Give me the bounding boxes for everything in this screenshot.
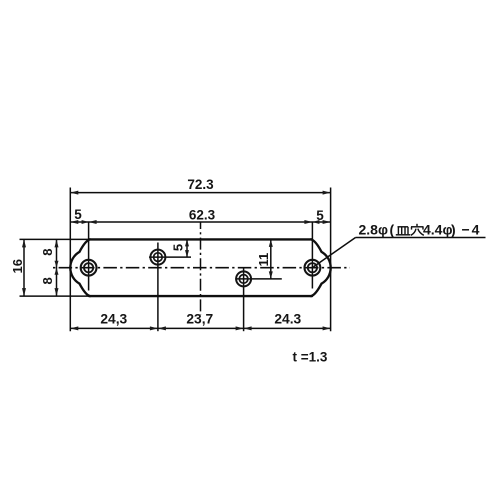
svg-text:11: 11 xyxy=(256,253,271,267)
svg-text:): ) xyxy=(451,222,456,238)
svg-text:2.8φ: 2.8φ xyxy=(359,222,388,238)
svg-text:24.3: 24.3 xyxy=(274,311,301,326)
svg-text:8: 8 xyxy=(40,277,55,284)
svg-text:8: 8 xyxy=(40,249,55,256)
svg-text:(: ( xyxy=(390,222,395,238)
svg-text:4.4φ: 4.4φ xyxy=(423,222,452,238)
svg-text:23,7: 23,7 xyxy=(186,311,213,326)
svg-text:5: 5 xyxy=(171,244,186,251)
svg-text:5: 5 xyxy=(74,207,82,222)
svg-text:72.3: 72.3 xyxy=(187,177,214,192)
svg-text:16: 16 xyxy=(10,259,25,273)
svg-text:t =1.3: t =1.3 xyxy=(293,350,328,365)
svg-text:−4: −4 xyxy=(462,222,482,238)
svg-text:62.3: 62.3 xyxy=(189,208,216,223)
svg-text:24,3: 24,3 xyxy=(100,311,127,326)
svg-text:5: 5 xyxy=(316,208,324,223)
